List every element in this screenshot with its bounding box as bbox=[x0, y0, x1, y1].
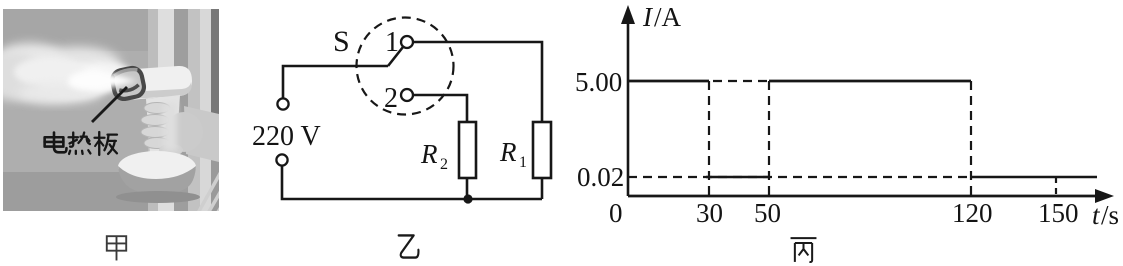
steam cloud bbox=[0, 39, 136, 109]
bottom wire bbox=[282, 166, 542, 199]
dashed guide vertical at t=30 bbox=[708, 81, 710, 196]
svg-text:30: 30 bbox=[696, 198, 723, 228]
steam jet at nozzle bbox=[68, 69, 137, 91]
dashed guide horizontal at I=5.00 between 30 and 50 bbox=[713, 80, 769, 82]
resistor R1 bbox=[533, 122, 551, 178]
y-axis bbox=[627, 18, 630, 196]
svg-text:R: R bbox=[499, 137, 517, 167]
svg-text:2: 2 bbox=[440, 156, 448, 173]
dashed guide vertical at t=50 bbox=[768, 81, 770, 196]
resistor R2 bbox=[459, 122, 476, 178]
svg-text:50: 50 bbox=[754, 198, 781, 228]
wire from upper terminal to switch bbox=[283, 66, 388, 98]
svg-text:R: R bbox=[420, 139, 438, 169]
hand fingers bbox=[141, 103, 219, 163]
char 电 bbox=[45, 133, 67, 153]
wire below R2 bbox=[466, 178, 469, 199]
char 板 bbox=[95, 132, 117, 155]
photo background wall bbox=[0, 9, 235, 217]
steamer head (white cylinder) bbox=[112, 66, 192, 100]
dashed guide vertical at t=150 bbox=[1055, 177, 1057, 196]
dashed guide horizontal at I=0.02 bbox=[628, 176, 971, 178]
svg-text:1: 1 bbox=[519, 154, 527, 171]
x-axis bbox=[628, 195, 1100, 198]
y-axis arrowhead bbox=[621, 5, 635, 24]
svg-text:5.00: 5.00 bbox=[575, 67, 622, 97]
svg-text:220 V: 220 V bbox=[252, 121, 321, 152]
current curve solid: 0.02A from 30 to 50 bbox=[706, 176, 770, 179]
wire below R1 bbox=[541, 178, 544, 199]
svg-text:t: t bbox=[1092, 200, 1101, 230]
wire from contact 1 to R1 top bbox=[413, 42, 542, 122]
switch contact 1 bbox=[401, 36, 413, 48]
switch contact 2 bbox=[401, 89, 413, 101]
svg-text:0: 0 bbox=[609, 198, 623, 228]
current curve solid: 0.02A from 120 onward bbox=[971, 176, 1097, 179]
diagonal stripes bottom right bbox=[198, 170, 235, 217]
dark nozzle opening (heating plate) bbox=[110, 66, 145, 101]
x-axis arrowhead bbox=[1095, 189, 1114, 203]
caption 乙 bbox=[399, 235, 419, 257]
terminal (lower, 220V source) bbox=[276, 154, 287, 165]
svg-text:I: I bbox=[642, 2, 654, 32]
junction node bbox=[463, 194, 472, 203]
svg-text:S: S bbox=[333, 25, 350, 58]
caption 丙 bbox=[791, 238, 817, 262]
svg-text:150: 150 bbox=[1038, 198, 1079, 228]
current curve solid: 5A from 50 to 120 bbox=[769, 80, 971, 83]
dashed guide vertical at t=120 bbox=[970, 81, 972, 196]
label arrow to heating plate bbox=[92, 87, 127, 122]
caption 甲 bbox=[107, 236, 126, 260]
terminal (upper, 220V source) bbox=[277, 98, 288, 109]
char 热 bbox=[69, 133, 91, 154]
switch enclosure dashed circle bbox=[357, 18, 454, 115]
svg-text:1: 1 bbox=[385, 27, 399, 58]
label 电热板 (heating plate) bbox=[45, 132, 117, 155]
current curve solid: 5A from 0 to 30 bbox=[628, 80, 709, 83]
svg-text:120: 120 bbox=[952, 198, 993, 228]
svg-text:/A: /A bbox=[654, 2, 682, 32]
svg-text:2: 2 bbox=[384, 83, 398, 114]
handle bbox=[146, 95, 180, 155]
wire from contact 2 to R2 top bbox=[413, 95, 467, 122]
right door frame stripes bbox=[148, 9, 158, 211]
svg-text:0.02: 0.02 bbox=[577, 162, 624, 192]
switch blade S bbox=[388, 47, 403, 66]
water tank bbox=[118, 151, 196, 183]
svg-text:/s: /s bbox=[1101, 200, 1119, 230]
